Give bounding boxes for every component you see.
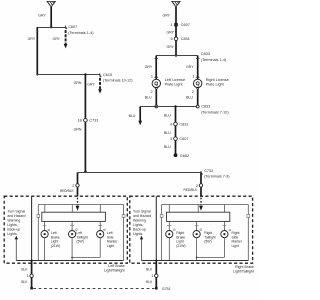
svg-text:1: 1 — [151, 274, 153, 278]
svg-text:Taillight: Taillight — [204, 235, 215, 239]
wire GRY from ground to junction — [50, 7, 52, 28]
wire horizontal to C607 — [37, 27, 65, 29]
svg-text:6: 6 — [170, 37, 172, 41]
bulb housing left — [42, 212, 106, 221]
svg-text:GRN: GRN — [74, 127, 82, 131]
wire drop into left box — [77, 173, 79, 197]
wire internal top bus right box — [162, 204, 249, 206]
svg-text:Light: Light — [176, 240, 183, 244]
wire dashed ground link — [33, 288, 154, 290]
svg-text:Light: Light — [51, 240, 58, 244]
wire GRY right column — [175, 7, 177, 56]
svg-text:GRY: GRY — [28, 37, 36, 41]
svg-text:and Hazard: and Hazard — [133, 214, 151, 218]
svg-text:C731: C731 — [89, 119, 98, 123]
right license plate light column — [186, 56, 229, 107]
wire internal descender with terminal right (right box) — [247, 205, 249, 215]
connector C607 (Terminals 1-4) — [52, 25, 94, 48]
svg-text:Side: Side — [232, 235, 239, 239]
wire GRN vertical — [84, 75, 86, 173]
svg-text:C831: C831 — [179, 122, 188, 126]
svg-text:Light: Light — [107, 244, 114, 248]
wire internal top bus left box — [38, 204, 123, 206]
wire GRY vertical left — [36, 27, 38, 74]
lamp left side marker light — [97, 221, 119, 257]
svg-text:C607: C607 — [181, 23, 190, 27]
svg-text:1: 1 — [170, 23, 172, 27]
wire horizontal distribution line — [78, 172, 202, 174]
right taillight assembly dashed box — [130, 196, 253, 263]
svg-text:Plate Light: Plate Light — [165, 82, 184, 86]
svg-text:C831: C831 — [181, 37, 190, 41]
svg-text:BLK: BLK — [146, 280, 153, 284]
bulb housing right — [167, 212, 230, 221]
svg-text:Turn Signal: Turn Signal — [7, 209, 25, 213]
wire drop into right box — [200, 173, 202, 197]
lamp left license plate light — [152, 79, 160, 87]
svg-text:Plate Light: Plate Light — [206, 82, 225, 86]
svg-text:(Terminals 7-9): (Terminals 7-9) — [204, 175, 230, 179]
svg-text:C833: C833 — [201, 105, 210, 109]
connector C732 (Terminals 7-9) — [201, 169, 230, 178]
svg-text:C615: C615 — [103, 73, 112, 77]
svg-text:Brake: Brake — [176, 235, 185, 239]
svg-text:BLK: BLK — [21, 280, 28, 284]
connector pin 2 right — [199, 184, 202, 187]
ground G652 — [174, 153, 178, 157]
svg-text:C732: C732 — [204, 169, 213, 173]
connector C607 pin 3 — [174, 137, 178, 141]
svg-text:Right: Right — [232, 231, 240, 235]
left taillight assembly dashed box — [4, 196, 127, 263]
svg-text:(Terminals 1-4): (Terminals 1-4) — [201, 58, 227, 62]
svg-text:18: 18 — [78, 119, 82, 123]
svg-text:Left: Left — [51, 231, 57, 235]
wire ticks to housing right — [168, 205, 170, 213]
connector C831 pin 4 — [174, 122, 178, 126]
lamp right brake light — [166, 221, 186, 260]
svg-text:C833: C833 — [201, 52, 210, 56]
node corner — [36, 74, 38, 76]
connector C731 pin 18 — [78, 118, 99, 122]
svg-text:G652: G652 — [180, 154, 189, 158]
lamp left taillight — [69, 221, 101, 260]
svg-text:GRY: GRY — [166, 45, 174, 49]
svg-text:GRY: GRY — [52, 37, 60, 41]
svg-text:Light/Taillight: Light/Taillight — [233, 269, 254, 273]
svg-text:(21W): (21W) — [176, 244, 185, 248]
node junction top-left — [50, 26, 52, 28]
svg-text:GRY: GRY — [145, 65, 153, 69]
wire horizontal bus to C615 — [37, 74, 100, 76]
svg-text:Brake: Brake — [51, 235, 60, 239]
svg-text:(5W): (5W) — [204, 240, 211, 244]
left license plate light column — [145, 56, 185, 108]
svg-text:Taillight: Taillight — [76, 235, 87, 239]
svg-text:GRY: GRY — [166, 31, 174, 35]
svg-text:GRY: GRY — [186, 65, 194, 69]
svg-text:Back-up: Back-up — [7, 227, 20, 231]
svg-text:Lights: Lights — [7, 232, 17, 236]
svg-text:BLU: BLU — [186, 96, 193, 100]
wire internal descender with terminal left — [37, 205, 39, 215]
node junction at GRN drop — [84, 73, 86, 75]
svg-text:1: 1 — [27, 274, 29, 278]
wire exit left box BLK — [31, 261, 33, 288]
svg-text:Left: Left — [76, 231, 82, 235]
svg-text:GRY: GRY — [162, 14, 170, 18]
node junction at G652 drop — [174, 105, 176, 107]
label turn signal note left — [7, 209, 25, 236]
svg-text:BLU: BLU — [145, 96, 152, 100]
wire dashes into right housing with arrow — [200, 198, 202, 206]
svg-text:Lights,: Lights, — [133, 223, 143, 227]
svg-text:Light: Light — [232, 244, 239, 248]
svg-text:BLU: BLU — [164, 114, 171, 118]
svg-text:2: 2 — [72, 184, 74, 188]
lamp left brake light — [41, 221, 60, 260]
svg-text:Right License: Right License — [206, 78, 229, 82]
svg-text:Back-up: Back-up — [133, 227, 146, 231]
svg-text:Marker: Marker — [232, 240, 243, 244]
node junction license bus — [175, 54, 177, 56]
svg-text:2: 2 — [150, 90, 152, 94]
svg-text:2: 2 — [192, 90, 194, 94]
svg-text:Lights: Lights — [133, 232, 143, 236]
svg-text:(Terminals 7-10): (Terminals 7-10) — [201, 110, 229, 114]
node junction above boxes — [84, 170, 87, 173]
svg-text:RED/BLK: RED/BLK — [184, 188, 199, 192]
connector pin 2 left — [76, 184, 79, 187]
svg-text:(Terminals 1-4): (Terminals 1-4) — [68, 31, 94, 35]
svg-text:Turn Signal: Turn Signal — [133, 209, 151, 213]
svg-text:Lights,: Lights, — [7, 223, 17, 227]
connector C607 pin 1 — [170, 23, 189, 27]
wire internal descender with terminal right — [123, 205, 125, 215]
ground chassis symbol top-right — [172, 1, 180, 6]
wire license feed bus C833 terminals 1-4 — [156, 55, 198, 57]
ground chassis symbol top-left — [47, 1, 55, 6]
svg-text:BLK: BLK — [21, 268, 28, 272]
svg-text:(5W): (5W) — [76, 240, 83, 244]
svg-text:C607: C607 — [68, 25, 77, 29]
svg-text:(21W): (21W) — [51, 244, 60, 248]
wire ticks to housing — [44, 205, 46, 213]
svg-text:Warning: Warning — [133, 218, 146, 222]
wire bottom bus right box — [142, 260, 249, 262]
svg-text:Light/Taillight: Light/Taillight — [104, 269, 125, 273]
svg-text:Side: Side — [107, 235, 114, 239]
svg-text:Left License: Left License — [165, 78, 185, 82]
svg-text:Warning: Warning — [7, 218, 20, 222]
svg-text:and Hazard: and Hazard — [7, 214, 25, 218]
svg-text:Right: Right — [204, 231, 212, 235]
svg-text:G751: G751 — [162, 287, 171, 291]
wire dashes into left housing with arrow — [77, 198, 79, 206]
svg-text:BLU: BLU — [164, 131, 171, 135]
ground G751 — [155, 287, 158, 290]
lamp right taillight — [193, 221, 224, 260]
wire to G652 — [175, 107, 177, 156]
lamp right side marker light — [221, 221, 243, 257]
connector C615 (Terminals 10-12) — [87, 73, 133, 94]
svg-text:3: 3 — [170, 137, 172, 141]
svg-text:4: 4 — [170, 122, 172, 126]
svg-text:GRY: GRY — [38, 14, 46, 18]
wire BLU continuation arrow left — [139, 107, 141, 121]
svg-text:GRY: GRY — [87, 83, 95, 87]
svg-text:GRN: GRN — [74, 81, 82, 85]
svg-text:C607: C607 — [179, 137, 188, 141]
wire internal descender with terminal left (right box) — [161, 205, 163, 215]
svg-text:Right: Right — [176, 231, 184, 235]
svg-text:Marker: Marker — [107, 240, 118, 244]
node splice bottom left — [30, 287, 33, 290]
wire return bus C833 terminals 7-10 — [140, 106, 198, 108]
svg-text:BLU: BLU — [164, 145, 171, 149]
lamp right license plate light — [194, 79, 202, 87]
wire exit right box BLK — [155, 261, 157, 288]
connector C831 pin 6 — [170, 37, 189, 41]
svg-text:(Terminals 10-12): (Terminals 10-12) — [103, 79, 133, 83]
svg-text:1: 1 — [192, 75, 194, 79]
svg-text:BLK: BLK — [146, 268, 153, 272]
label turn signal note right — [133, 209, 151, 236]
wire bottom bus left box — [16, 260, 123, 262]
svg-text:Left: Left — [107, 231, 113, 235]
wire internal left vertical — [31, 196, 33, 260]
svg-text:RED/BLK: RED/BLK — [60, 189, 75, 193]
wire internal left vertical right box — [155, 196, 157, 260]
svg-text:BLU: BLU — [129, 114, 136, 118]
svg-text:1: 1 — [151, 75, 153, 79]
